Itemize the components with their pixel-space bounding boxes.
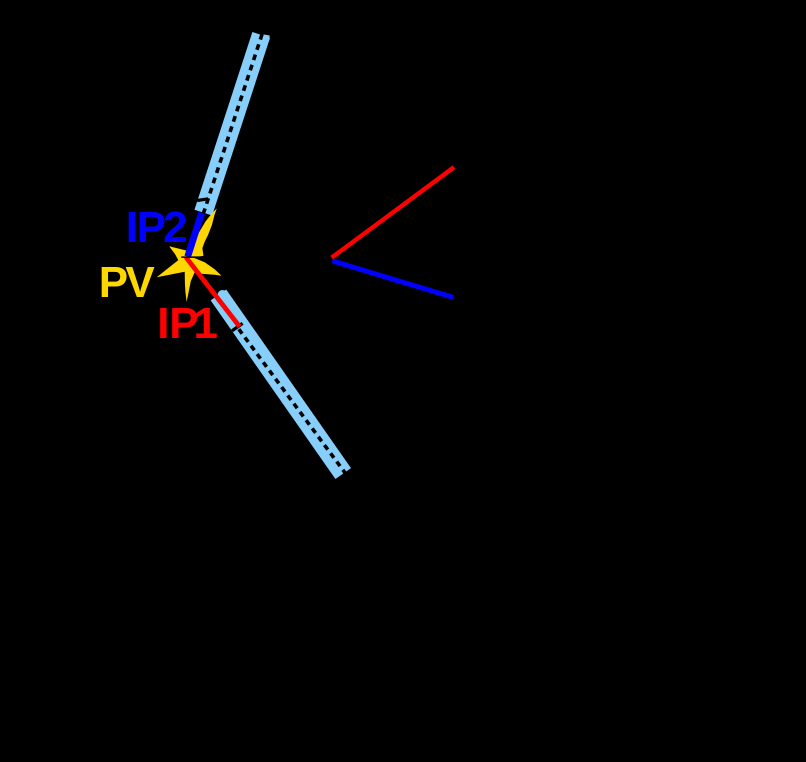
label IP2 bbox=[126, 206, 188, 250]
beam axis line through PV bbox=[181, 256, 207, 258]
lower track band (track 1 measurement band) bbox=[218, 295, 343, 474]
lower band dashed center line bbox=[239, 329, 346, 474]
IP1 segment (red) bbox=[186, 257, 240, 326]
label IP1 bbox=[157, 302, 218, 346]
upper band dashed center line bbox=[203, 34, 262, 214]
upper band corner bump bbox=[265, 35, 266, 41]
lower band tick bbox=[232, 323, 243, 330]
blue pointer line (right) bbox=[332, 261, 453, 298]
upper band tick bbox=[197, 199, 208, 201]
PV star marker bbox=[157, 208, 222, 302]
red pointer line (right) bbox=[332, 167, 454, 258]
IP2 segment (blue) bbox=[188, 213, 202, 257]
lower band corner bump bbox=[218, 290, 228, 300]
label PV bbox=[99, 261, 155, 305]
upper track band (track 2 measurement band) bbox=[203, 35, 261, 213]
